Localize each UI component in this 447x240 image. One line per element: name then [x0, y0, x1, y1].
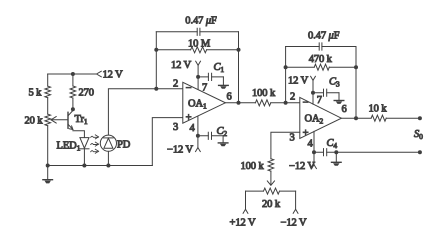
node: collector junction dot: [71, 107, 75, 111]
svg-text:470 k: 470 k: [309, 54, 333, 65]
svg-text:S0: S0: [414, 129, 423, 141]
node: dot at 10M right: [237, 48, 241, 52]
ground C3: [334, 93, 344, 104]
svg-text:−12 V: −12 V: [289, 161, 315, 172]
node: dot pin7/C1: [196, 75, 200, 79]
capacitor C3: [313, 89, 339, 96]
node: dot pin4/C4: [312, 150, 316, 154]
svg-text:−12 V: −12 V: [167, 145, 193, 156]
svg-text:3: 3: [290, 133, 295, 144]
wire: OA2 pin3 to offset network: [271, 132, 300, 158]
node: 12V supply arrow OA1: [196, 61, 201, 65]
svg-text:6: 6: [342, 104, 347, 115]
node: -12V supply arrow OA2: [312, 165, 317, 169]
svg-text:5 k: 5 k: [29, 88, 43, 99]
node: pot wiper arrowhead: [51, 117, 56, 123]
wire: OA1 output: [225, 102, 255, 104]
resistor 100k (series): [255, 100, 270, 106]
svg-text:7: 7: [202, 83, 207, 94]
node: dot output/feedback: [237, 101, 241, 105]
svg-text:10 k: 10 k: [369, 104, 388, 115]
wire: PD bottom to rail: [107, 152, 109, 166]
svg-text:10 M: 10 M: [188, 38, 211, 49]
wire: OA2 feedback left vertical: [285, 47, 287, 103]
ground C2: [218, 136, 228, 147]
wire: 100k to pot wiper: [270, 171, 272, 184]
node: 12V supply arrow (left): [97, 71, 102, 77]
node: lower terminal dot: [418, 150, 422, 154]
diode LED1: [80, 138, 89, 149]
resistor 470k (feedback): [286, 64, 356, 70]
svg-text:12 V: 12 V: [288, 76, 309, 87]
svg-text:6: 6: [227, 92, 232, 103]
svg-text:0.47 μF: 0.47 μF: [185, 16, 217, 27]
svg-text:3: 3: [173, 122, 178, 133]
capacitor C2: [198, 132, 223, 139]
node: dot OA2 inverting input: [284, 101, 288, 105]
node: dot pin7/C3: [311, 91, 315, 95]
wire: OA1 feedback left vertical: [155, 32, 157, 89]
svg-text:100 k: 100 k: [241, 161, 265, 172]
node: 12V supply arrow OA2: [311, 76, 316, 80]
svg-text:C2: C2: [217, 126, 228, 138]
svg-text:Tr1: Tr1: [75, 114, 88, 126]
resistor 5k: [45, 86, 51, 98]
svg-text:12 V: 12 V: [171, 60, 192, 71]
resistor 270: [70, 86, 76, 98]
capacitor C1: [198, 73, 223, 80]
svg-text:−: −: [186, 83, 192, 94]
wire: rail up to OA1 non-inverting input: [152, 118, 183, 166]
wire: pot right end to -12V: [295, 191, 297, 209]
op-amp U1 OA1: [183, 82, 226, 123]
wire: ground line to lower output terminal: [336, 151, 420, 153]
wire: OA2 feedback right vertical: [355, 47, 357, 119]
resistor 10M (feedback): [156, 47, 238, 53]
wire: -12V stub OA2: [313, 152, 315, 164]
svg-text:20 k: 20 k: [262, 199, 281, 210]
svg-text:4: 4: [308, 139, 314, 150]
node: rail junction dots: [46, 164, 50, 168]
svg-text:20 k: 20 k: [25, 116, 44, 127]
capacitor 0.47uF (OA2 feedback): [286, 43, 356, 50]
node: dot at inverting input: [154, 87, 158, 91]
wire: base to pot wiper: [52, 119, 68, 121]
wire: -12V stub OA1: [197, 136, 199, 147]
wire: PD top to OA1 inverting input: [108, 89, 182, 135]
capacitor C4: [314, 149, 336, 156]
wire: left 12V top rail: [48, 73, 96, 75]
svg-text:0.47 μF: 0.47 μF: [308, 30, 340, 41]
wire: 5k branch down: [47, 74, 49, 166]
svg-text:+: +: [303, 128, 309, 139]
node: junction dot at 270 branch top: [71, 72, 75, 76]
node: dot output/feedback OA2: [354, 116, 358, 120]
wire: LED cathode to rail: [83, 149, 85, 166]
transistor Q Tr1: [68, 109, 73, 129]
svg-text:2: 2: [173, 79, 178, 90]
svg-text:−12 V: −12 V: [281, 218, 307, 229]
pin 7 wire OA2: [312, 81, 314, 104]
node: light arrows LED to PD: [91, 135, 99, 153]
svg-text:12 V: 12 V: [103, 70, 124, 81]
node: -12V supply arrow OA1: [196, 148, 201, 152]
ground C4: [332, 152, 342, 166]
svg-text:C3: C3: [329, 77, 340, 89]
pin 7 wire OA1: [197, 66, 199, 90]
resistor 100k (offset, vertical): [268, 159, 274, 171]
ground C1: [219, 77, 229, 89]
wire: emitter to LED: [73, 131, 85, 138]
node: dot at 10M left: [154, 48, 158, 52]
svg-text:+12 V: +12 V: [230, 218, 256, 229]
svg-text:LED1: LED1: [57, 141, 81, 153]
wire: OA2 output: [341, 117, 371, 119]
svg-text:2: 2: [290, 92, 295, 103]
resistor 10k: [371, 115, 386, 121]
svg-text:+: +: [186, 113, 192, 124]
node: upper terminal dot: [418, 116, 422, 120]
wire: pot left end to +12V: [245, 191, 247, 209]
pin 4 wire OA1: [197, 116, 199, 136]
svg-text:270: 270: [79, 88, 94, 99]
svg-text:4: 4: [190, 123, 196, 134]
ground (main, bottom-left): [43, 166, 53, 184]
op-amp U2 OA2: [300, 97, 342, 138]
node: dot at 470k left: [284, 65, 288, 69]
wire: bottom ground rail: [48, 165, 153, 167]
wire: 270 branch down: [72, 74, 74, 109]
svg-text:C1: C1: [214, 62, 225, 74]
potentiometer 20k (vertical): [45, 114, 51, 126]
pin 4 wire OA2: [313, 131, 315, 152]
node: dot at 470k right: [354, 65, 358, 69]
svg-text:100 k: 100 k: [252, 88, 276, 99]
svg-text:PD: PD: [117, 140, 131, 151]
svg-text:7: 7: [317, 95, 322, 106]
node: +12V supply arrow: [243, 209, 248, 213]
svg-text:C4: C4: [327, 138, 338, 150]
wire: 10k to upper terminal: [386, 117, 420, 119]
wire: OA1 feedback right vertical: [238, 32, 240, 103]
svg-text:−: −: [303, 97, 309, 108]
capacitor 0.47uF (OA1 feedback): [156, 28, 238, 35]
node: pot wiper arrowhead (down): [267, 181, 274, 185]
potentiometer 20k (horizontal): [246, 188, 296, 194]
node: -12V supply arrow (pot): [293, 209, 298, 213]
node: dot C4/ground: [334, 150, 338, 154]
node: dot pin4/C2: [196, 134, 200, 138]
photodiode PD: [100, 135, 116, 151]
wire: 100k to OA2 input: [271, 102, 300, 104]
